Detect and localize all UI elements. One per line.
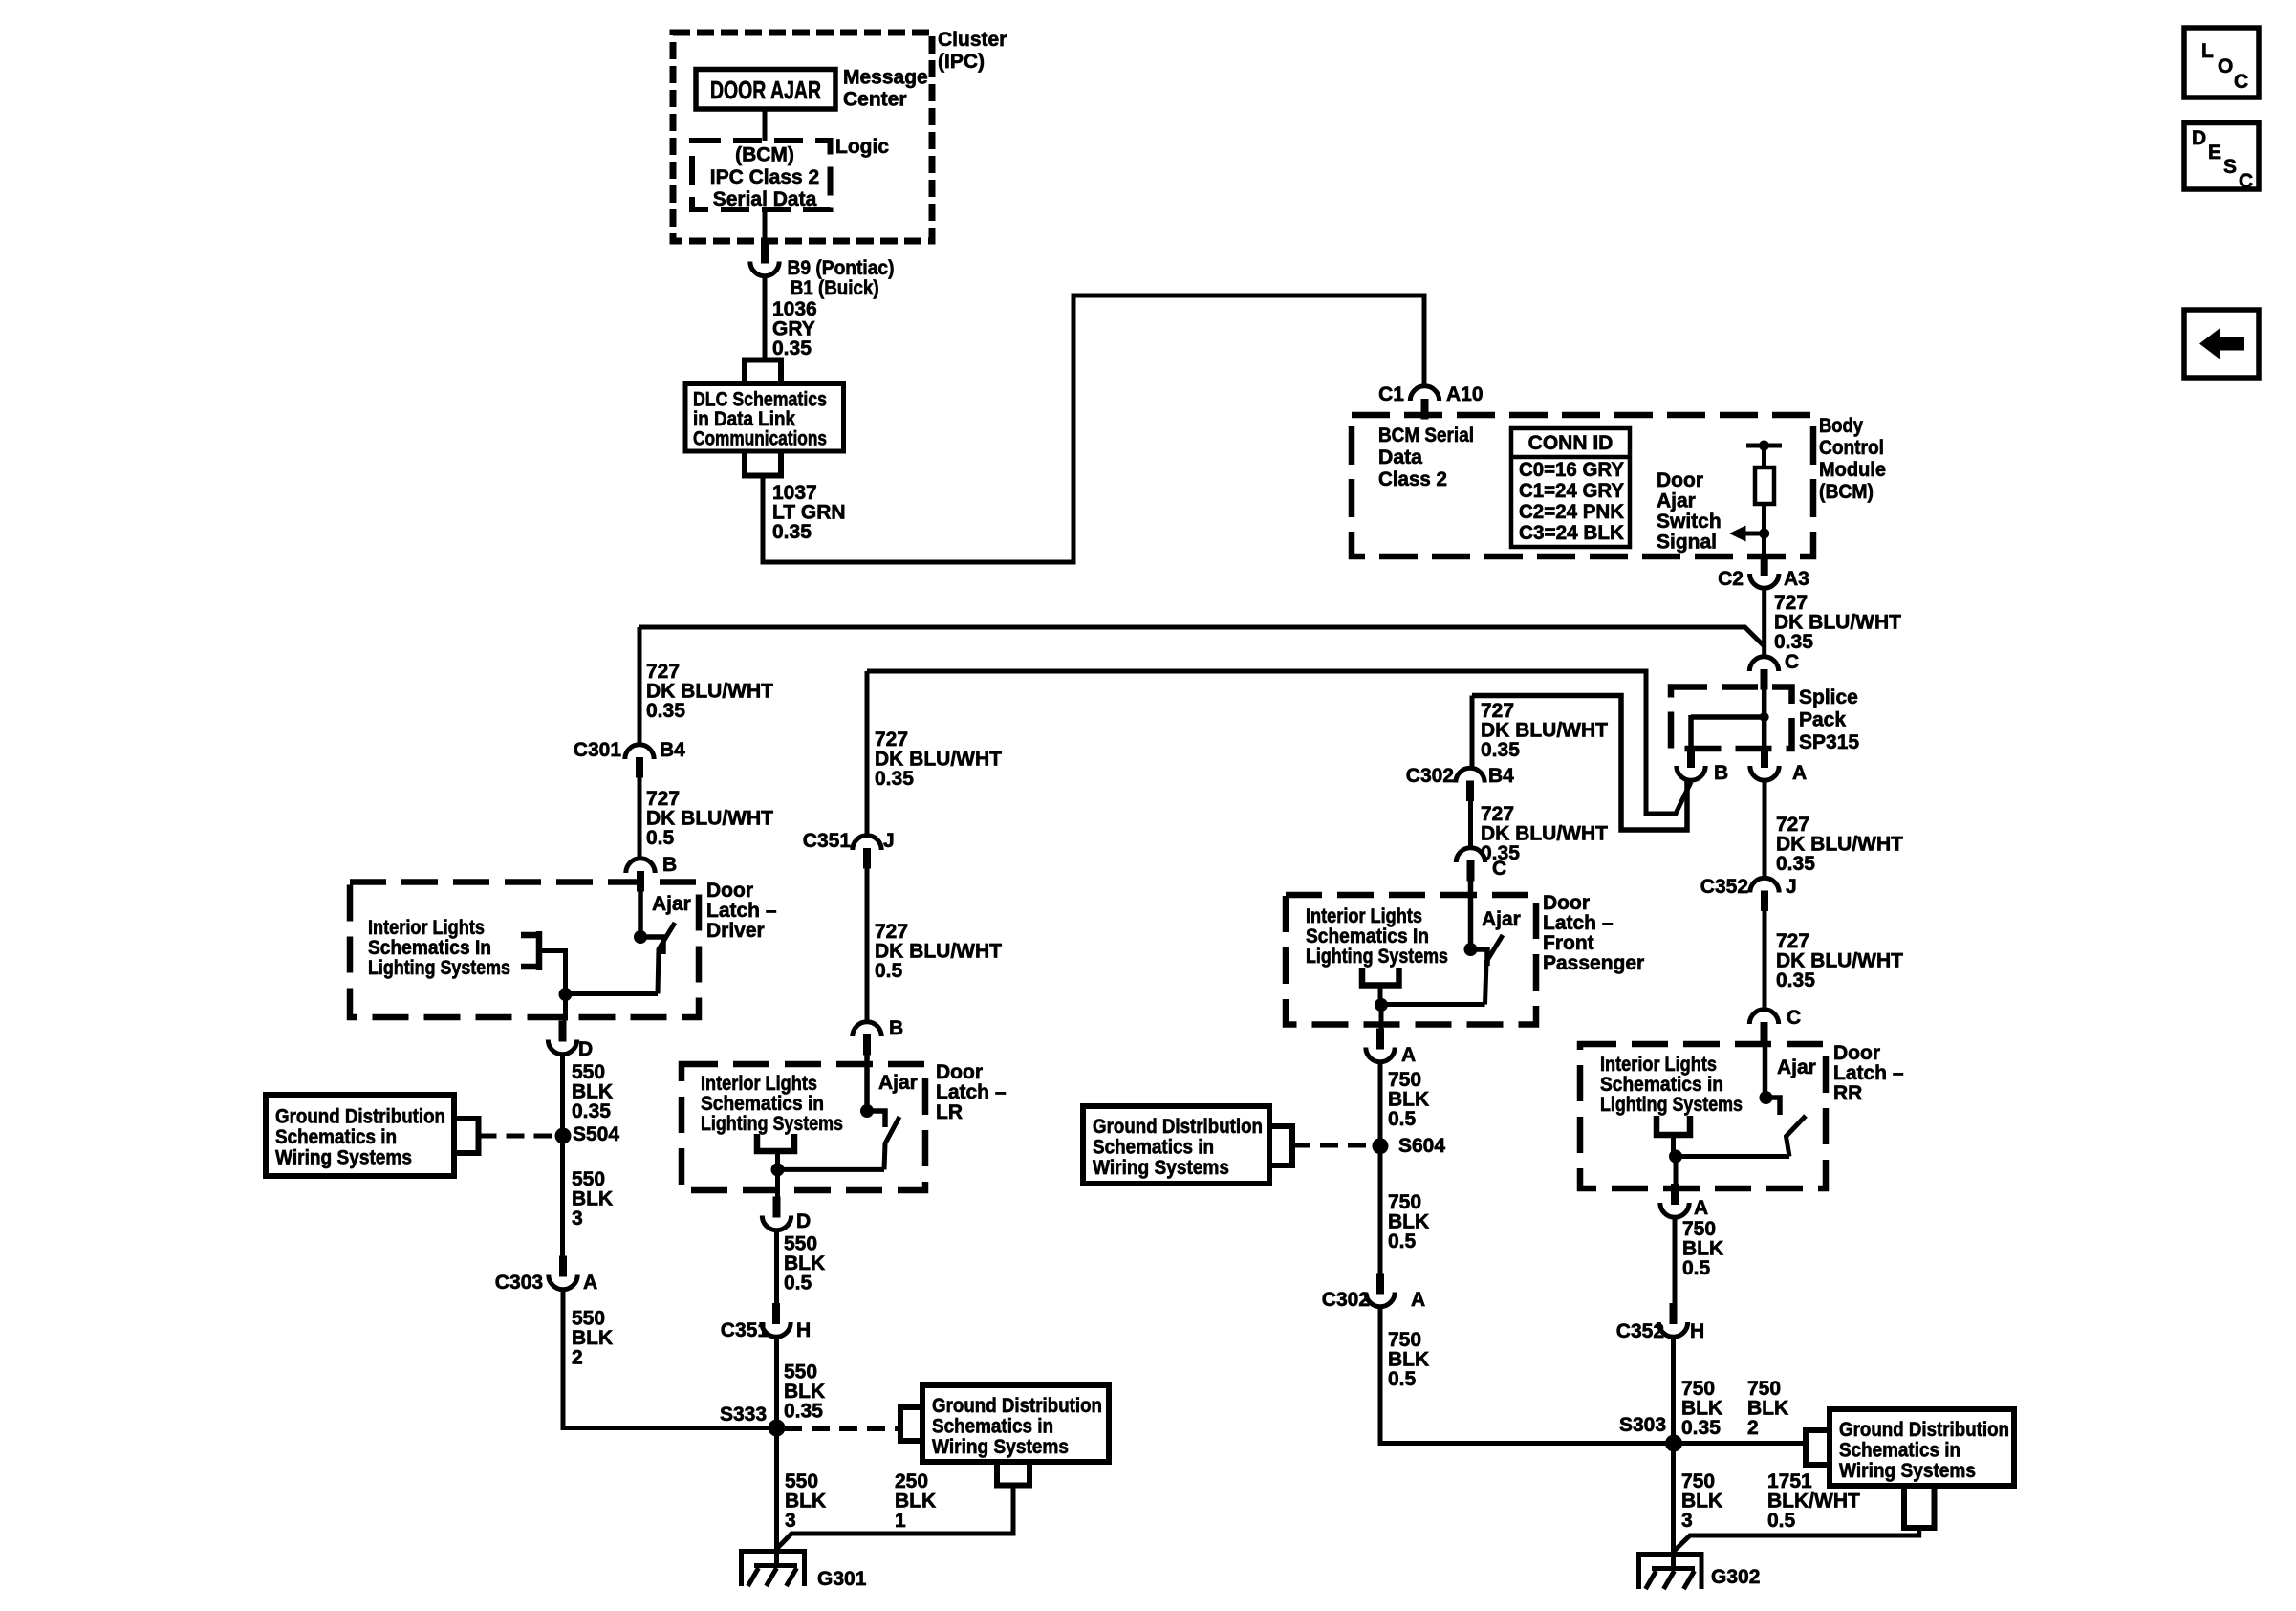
svg-text:IPC Class 2: IPC Class 2 bbox=[710, 166, 819, 188]
node ajar contact dot (FP) bbox=[1464, 943, 1478, 956]
svg-text:C302: C302 bbox=[1322, 1289, 1370, 1311]
connector C302/A bbox=[1366, 1274, 1395, 1307]
svg-text:Ajar: Ajar bbox=[1777, 1056, 1816, 1078]
node common junction dot (LR) bbox=[771, 1163, 785, 1176]
svg-text:0.35: 0.35 bbox=[772, 337, 812, 359]
svg-text:Wiring Systems: Wiring Systems bbox=[1839, 1460, 1976, 1482]
node junction dot on bus bbox=[1759, 441, 1769, 451]
svg-text:Ajar: Ajar bbox=[1482, 908, 1521, 930]
svg-text:Interior Lights: Interior Lights bbox=[701, 1073, 817, 1095]
wire LR branch to splice terminal B bbox=[867, 671, 1691, 814]
wire switch common (driver) bbox=[566, 991, 659, 996]
svg-text:Schematics in: Schematics in bbox=[932, 1416, 1053, 1438]
DLC Schematics box bbox=[685, 384, 844, 452]
svg-text:Schematics in: Schematics in bbox=[701, 1093, 824, 1115]
switch blade (FP) bbox=[1485, 935, 1504, 1005]
svg-text:Door: Door bbox=[1833, 1042, 1880, 1064]
svg-text:0.35: 0.35 bbox=[1681, 1417, 1721, 1439]
svg-text:B: B bbox=[1714, 762, 1728, 784]
wire A to C352 H bbox=[1673, 1218, 1678, 1303]
svg-text:C301: C301 bbox=[574, 739, 622, 761]
svg-text:Ajar: Ajar bbox=[1657, 490, 1696, 512]
svg-text:Ground Distribution: Ground Distribution bbox=[932, 1395, 1102, 1417]
wire fixed contact hook (RR) bbox=[1766, 1098, 1781, 1115]
wire chain3 vertical to C302 B4 bbox=[1470, 696, 1475, 769]
wire splice internal vertical bbox=[1762, 688, 1767, 749]
svg-text:3: 3 bbox=[785, 1510, 796, 1532]
LOC nav box bbox=[2184, 28, 2259, 98]
wire splice internal horizontal bbox=[1691, 714, 1765, 720]
wire fixed contact hook (driver) bbox=[640, 937, 663, 954]
svg-text:Wiring Systems: Wiring Systems bbox=[1093, 1157, 1229, 1179]
bracket ground ref S303 bbox=[1806, 1430, 1830, 1465]
svg-text:Door: Door bbox=[1543, 892, 1590, 914]
switch blade (LR) bbox=[884, 1117, 899, 1169]
svg-text:C0=16 GRY: C0=16 GRY bbox=[1519, 459, 1624, 481]
DESC nav box bbox=[2184, 123, 2259, 190]
wire driver exit to D bbox=[563, 994, 568, 1021]
connector C into splice pack bbox=[1749, 657, 1778, 690]
svg-text:C303: C303 bbox=[495, 1272, 543, 1294]
svg-text:Interior Lights: Interior Lights bbox=[368, 917, 485, 939]
svg-text:Class 2: Class 2 bbox=[1378, 468, 1447, 490]
wire S303 right to ground ref (750 BLK 2) bbox=[1674, 1441, 1806, 1446]
svg-text:0.35: 0.35 bbox=[1774, 631, 1813, 653]
ground distribution box middle bbox=[922, 1385, 1109, 1462]
connector B splice output bbox=[1677, 747, 1705, 780]
svg-text:0.35: 0.35 bbox=[572, 1100, 611, 1122]
svg-text:A: A bbox=[583, 1272, 597, 1294]
svg-text:L: L bbox=[2201, 40, 2214, 62]
svg-text:C2: C2 bbox=[1718, 568, 1744, 590]
wire D to C351 H bbox=[774, 1230, 779, 1303]
svg-text:B4: B4 bbox=[1488, 765, 1514, 787]
svg-text:A: A bbox=[1401, 1044, 1416, 1066]
svg-text:Schematics in: Schematics in bbox=[1839, 1440, 1960, 1462]
connector D below driver box bbox=[548, 1021, 576, 1055]
wire chain2 vertical to C351 J bbox=[865, 671, 870, 836]
svg-text:C: C bbox=[1787, 1007, 1801, 1029]
svg-text:0.35: 0.35 bbox=[1481, 739, 1520, 761]
svg-text:H: H bbox=[796, 1319, 811, 1341]
wire C351H to S333 to G301 bbox=[774, 1338, 779, 1566]
svg-text:A: A bbox=[1792, 762, 1807, 784]
wire C352H to S303 to G302 bbox=[1671, 1338, 1676, 1569]
svg-text:0.35: 0.35 bbox=[1776, 853, 1815, 875]
svg-text:B: B bbox=[889, 1017, 903, 1039]
connector C302/B4 bbox=[1456, 768, 1484, 801]
svg-text:Lighting Systems: Lighting Systems bbox=[1600, 1094, 1743, 1116]
svg-text:S: S bbox=[2223, 156, 2237, 178]
wire ajar switch feed (RR) bbox=[1763, 1042, 1768, 1098]
svg-text:Logic: Logic bbox=[835, 136, 889, 158]
svg-text:0.5: 0.5 bbox=[875, 960, 903, 982]
bracket ground ref S504 bbox=[454, 1119, 479, 1153]
svg-text:0.5: 0.5 bbox=[1767, 1510, 1796, 1532]
svg-text:D: D bbox=[796, 1210, 811, 1232]
svg-text:H: H bbox=[1690, 1320, 1704, 1342]
wire A to S604 to C302A bbox=[1378, 1062, 1383, 1274]
bracket interior lights ref (driver) bbox=[521, 931, 539, 970]
switch blade (RR) bbox=[1787, 1116, 1807, 1157]
svg-text:Interior Lights: Interior Lights bbox=[1306, 905, 1422, 927]
svg-text:O: O bbox=[2218, 55, 2233, 77]
svg-text:Body: Body bbox=[1819, 415, 1863, 437]
connector D below LR box bbox=[762, 1197, 791, 1230]
door latch driver dashed box bbox=[350, 882, 699, 1018]
wire driver branch horizontal to splice C bbox=[639, 627, 1765, 646]
node ajar contact dot (LR) bbox=[860, 1104, 874, 1118]
wire switch common (FP) bbox=[1381, 1002, 1485, 1007]
svg-text:Module: Module bbox=[1819, 459, 1886, 481]
svg-text:Door: Door bbox=[706, 880, 753, 902]
ground distribution box left bbox=[266, 1095, 454, 1176]
ground distribution box right bbox=[1830, 1409, 2014, 1486]
wire FP exit to A bbox=[1379, 1005, 1384, 1029]
svg-text:Wiring Systems: Wiring Systems bbox=[275, 1147, 412, 1169]
svg-text:B9 (Pontiac): B9 (Pontiac) bbox=[788, 257, 895, 279]
node splice S303 bbox=[1665, 1435, 1682, 1452]
wire C301 to B driver bbox=[638, 777, 642, 859]
svg-text:C352: C352 bbox=[1616, 1320, 1664, 1342]
BCM internal bus wire bbox=[1746, 444, 1782, 448]
wire bracket to common (RR) bbox=[1671, 1135, 1676, 1157]
svg-text:0.5: 0.5 bbox=[646, 827, 675, 849]
svg-text:Ajar: Ajar bbox=[878, 1072, 918, 1094]
svg-text:Control: Control bbox=[1819, 437, 1884, 459]
back arrow nav box bbox=[2184, 310, 2259, 378]
splice pack SP315 dashed box bbox=[1671, 687, 1792, 750]
svg-text:Ajar: Ajar bbox=[652, 893, 691, 915]
svg-text:3: 3 bbox=[1681, 1510, 1693, 1532]
wire C302A down and right to S303 bbox=[1380, 1307, 1674, 1444]
connector C2/A3 BCM output bbox=[1750, 555, 1779, 588]
connector B into door latch LR bbox=[853, 1022, 881, 1056]
connector B into door latch driver bbox=[626, 859, 655, 892]
svg-text:D: D bbox=[578, 1038, 593, 1060]
svg-text:C: C bbox=[1785, 651, 1799, 673]
wire C2 down to splice C bbox=[1762, 589, 1766, 657]
svg-text:Latch –: Latch – bbox=[1543, 912, 1614, 934]
wire dashed to S504 bbox=[479, 1134, 556, 1139]
node junction dot at arrow bbox=[1759, 529, 1769, 539]
wire bracket to common (FP) bbox=[1378, 986, 1383, 1006]
svg-text:0.35: 0.35 bbox=[772, 521, 812, 543]
switch blade (driver) bbox=[658, 923, 675, 994]
svg-text:Lighting Systems: Lighting Systems bbox=[368, 957, 510, 979]
connector C303/A bbox=[549, 1256, 577, 1290]
svg-text:C: C bbox=[1492, 858, 1506, 880]
svg-text:Interior Lights: Interior Lights bbox=[1600, 1054, 1717, 1076]
svg-text:D: D bbox=[2192, 127, 2206, 149]
node common junction dot (RR) bbox=[1669, 1150, 1682, 1164]
svg-text:0.5: 0.5 bbox=[1388, 1108, 1417, 1130]
wire B9 to DLC connector bbox=[763, 276, 768, 360]
wire C351J to B LR bbox=[865, 868, 870, 1022]
svg-text:0.5: 0.5 bbox=[1388, 1368, 1417, 1390]
wire ajar switch feed (driver) bbox=[638, 891, 643, 937]
svg-text:B1 (Buick): B1 (Buick) bbox=[791, 277, 879, 299]
node ajar contact dot (driver) bbox=[634, 930, 647, 944]
ground G302 bbox=[1638, 1552, 1703, 1589]
svg-text:Door: Door bbox=[1657, 469, 1703, 491]
wire FP branch to splice terminal B bbox=[1472, 696, 1687, 831]
svg-text:A10: A10 bbox=[1446, 383, 1484, 405]
CONN ID table bbox=[1511, 428, 1630, 547]
svg-text:BCM Serial: BCM Serial bbox=[1378, 425, 1474, 446]
svg-text:0.5: 0.5 bbox=[1388, 1230, 1417, 1252]
svg-text:C: C bbox=[2234, 71, 2248, 93]
wire switch common (RR) bbox=[1676, 1154, 1789, 1159]
svg-text:Center: Center bbox=[843, 89, 907, 111]
wire ajar switch feed (LR) bbox=[864, 1055, 870, 1111]
connector A below RR box bbox=[1660, 1184, 1689, 1217]
door latch front passenger dashed box bbox=[1286, 895, 1536, 1025]
svg-text:Wiring Systems: Wiring Systems bbox=[932, 1436, 1069, 1458]
svg-text:C2=24 PNK: C2=24 PNK bbox=[1519, 501, 1624, 523]
connector C1/A10 into BCM bbox=[1410, 386, 1439, 420]
svg-text:LR: LR bbox=[936, 1101, 963, 1123]
door latch LR dashed box bbox=[682, 1064, 925, 1190]
cluster IPC dashed box bbox=[673, 33, 932, 241]
svg-text:Latch –: Latch – bbox=[706, 900, 777, 922]
node splice S333 bbox=[769, 1420, 786, 1437]
wire bracket to common (driver) bbox=[539, 951, 566, 995]
wire LR exit to D bbox=[775, 1169, 780, 1196]
svg-text:G301: G301 bbox=[817, 1568, 867, 1590]
svg-text:Latch –: Latch – bbox=[936, 1081, 1007, 1103]
bracket interior lights ref (FP) bbox=[1362, 968, 1399, 986]
wire logic box to B9 connector bbox=[763, 209, 768, 243]
svg-text:3: 3 bbox=[572, 1208, 583, 1230]
arrow door ajar switch signal bbox=[1745, 532, 1765, 536]
logic dashed box bbox=[692, 141, 831, 209]
svg-text:0.5: 0.5 bbox=[1682, 1257, 1711, 1279]
svg-text:RR: RR bbox=[1833, 1082, 1862, 1104]
svg-text:2: 2 bbox=[1747, 1417, 1759, 1439]
wire splice B leg bbox=[1688, 715, 1694, 748]
connector C351/J bbox=[853, 836, 881, 869]
wire C352J to C RR bbox=[1763, 911, 1767, 1009]
svg-text:Door: Door bbox=[936, 1061, 983, 1083]
svg-text:E: E bbox=[2208, 142, 2221, 163]
svg-text:S604: S604 bbox=[1398, 1135, 1445, 1157]
svg-text:S303: S303 bbox=[1619, 1414, 1666, 1436]
svg-text:SP315: SP315 bbox=[1799, 731, 1859, 753]
wire fixed contact hook (LR) bbox=[867, 1111, 885, 1127]
svg-text:Driver: Driver bbox=[706, 920, 765, 942]
svg-text:0.35: 0.35 bbox=[784, 1401, 823, 1423]
svg-text:Serial Data: Serial Data bbox=[713, 188, 817, 210]
wire dashed to S604 bbox=[1292, 1143, 1373, 1148]
node common junction dot (FP) bbox=[1375, 998, 1388, 1012]
svg-text:Lighting Systems: Lighting Systems bbox=[701, 1113, 843, 1135]
node ajar contact dot (RR) bbox=[1760, 1091, 1773, 1104]
svg-text:DOOR AJAR: DOOR AJAR bbox=[710, 76, 821, 104]
svg-text:0.35: 0.35 bbox=[646, 700, 685, 722]
svg-text:A: A bbox=[1694, 1197, 1708, 1219]
wire C303 down and right to S333 bbox=[563, 1290, 777, 1428]
svg-text:G302: G302 bbox=[1711, 1566, 1760, 1588]
svg-text:Signal: Signal bbox=[1657, 532, 1717, 554]
wire 1037 route to C1 bbox=[763, 295, 1424, 562]
svg-text:Pack: Pack bbox=[1799, 709, 1846, 731]
icon left arrow bbox=[2199, 329, 2244, 359]
connector B9/B1 cluster output bbox=[750, 243, 779, 276]
svg-text:Schematics in: Schematics in bbox=[1600, 1074, 1723, 1096]
svg-text:S333: S333 bbox=[720, 1404, 767, 1426]
svg-text:B4: B4 bbox=[660, 739, 685, 761]
door latch RR dashed box bbox=[1580, 1044, 1826, 1188]
svg-text:(BCM): (BCM) bbox=[735, 144, 794, 166]
svg-text:A3: A3 bbox=[1784, 568, 1809, 590]
BCM Serial Data dashed box bbox=[1352, 415, 1813, 556]
connector staple into DLC box bbox=[745, 360, 781, 384]
svg-text:C1: C1 bbox=[1378, 383, 1404, 405]
svg-text:0.35: 0.35 bbox=[1776, 969, 1815, 991]
wire DOOR AJAR to logic box bbox=[763, 109, 768, 141]
svg-text:Latch –: Latch – bbox=[1833, 1062, 1904, 1084]
svg-text:C302: C302 bbox=[1406, 765, 1454, 787]
svg-text:Ground Distribution: Ground Distribution bbox=[275, 1106, 445, 1128]
bracket ground ref S604 bbox=[1269, 1126, 1292, 1165]
wire 1751 BLK/WHT 0.5 to G302 bbox=[1675, 1528, 1919, 1551]
svg-text:0.5: 0.5 bbox=[784, 1273, 812, 1295]
connector C301/B4 bbox=[625, 745, 654, 778]
connector A below FP box bbox=[1366, 1029, 1395, 1062]
svg-text:Switch: Switch bbox=[1657, 511, 1722, 533]
wire C302B4 to C FP bbox=[1468, 801, 1473, 848]
connector C into door latch RR bbox=[1749, 1010, 1778, 1043]
svg-text:0.35: 0.35 bbox=[875, 768, 914, 790]
svg-text:Communications: Communications bbox=[693, 428, 827, 450]
connector C352/H bbox=[1658, 1303, 1687, 1337]
svg-text:(BCM): (BCM) bbox=[1819, 481, 1874, 503]
wire switch common (LR) bbox=[778, 1167, 885, 1172]
svg-text:Cluster: Cluster bbox=[938, 29, 1007, 51]
connector C into door latch FP bbox=[1456, 848, 1484, 882]
svg-text:Schematics in: Schematics in bbox=[275, 1126, 397, 1148]
svg-text:Schematics in: Schematics in bbox=[1093, 1137, 1214, 1159]
connector C351/H bbox=[762, 1303, 791, 1337]
svg-text:A: A bbox=[1411, 1289, 1425, 1311]
svg-text:C3=24 BLK: C3=24 BLK bbox=[1519, 522, 1624, 544]
svg-text:B: B bbox=[662, 854, 677, 876]
wire dashed S333 to ground ref bbox=[784, 1426, 900, 1431]
connector staple below DLC box bbox=[745, 451, 781, 476]
resistor door ajar pull-up bbox=[1762, 446, 1766, 468]
svg-text:2: 2 bbox=[572, 1347, 583, 1369]
bracket below ground box (1751 BLK/WHT feed) bbox=[1904, 1486, 1935, 1528]
wire 250 BLK 1 to G301 bbox=[777, 1486, 1014, 1550]
svg-text:Splice: Splice bbox=[1799, 686, 1858, 708]
bracket ground ref S333 bbox=[900, 1407, 922, 1441]
svg-text:S504: S504 bbox=[573, 1123, 619, 1145]
svg-text:C1=24 GRY: C1=24 GRY bbox=[1519, 480, 1624, 502]
bracket below ground box (250 BLK feed) bbox=[997, 1462, 1029, 1486]
wire fixed contact hook (FP) bbox=[1471, 949, 1488, 966]
svg-text:C: C bbox=[2239, 170, 2253, 192]
svg-text:Ground Distribution: Ground Distribution bbox=[1839, 1419, 2009, 1441]
svg-text:J: J bbox=[883, 830, 895, 852]
svg-text:(IPC): (IPC) bbox=[938, 51, 985, 73]
bracket interior lights ref (LR) bbox=[757, 1134, 794, 1151]
connector A splice output bbox=[1750, 747, 1779, 780]
svg-text:Front: Front bbox=[1543, 932, 1594, 954]
node splice S504 bbox=[555, 1128, 572, 1144]
DOOR AJAR message box bbox=[696, 70, 835, 110]
svg-text:C351: C351 bbox=[803, 830, 852, 852]
svg-text:Passenger: Passenger bbox=[1543, 952, 1644, 974]
bracket interior lights ref (RR) bbox=[1657, 1116, 1690, 1135]
svg-text:Ground Distribution: Ground Distribution bbox=[1093, 1116, 1263, 1138]
svg-text:Lighting Systems: Lighting Systems bbox=[1306, 946, 1448, 968]
wire D to S504 to C303 bbox=[560, 1055, 565, 1256]
svg-text:C352: C352 bbox=[1700, 876, 1748, 898]
node splice junction bbox=[1760, 712, 1769, 722]
wire bracket to common (LR) bbox=[775, 1151, 780, 1169]
wire A down to C352 J bbox=[1763, 781, 1767, 878]
connector C352/J bbox=[1750, 878, 1779, 911]
svg-text:1: 1 bbox=[895, 1510, 906, 1532]
svg-text:C351: C351 bbox=[721, 1319, 769, 1341]
wire ajar switch feed (FP) bbox=[1468, 881, 1474, 949]
node splice S604 bbox=[1373, 1138, 1389, 1154]
ground distribution box S604 bbox=[1083, 1106, 1269, 1184]
svg-text:Message: Message bbox=[843, 67, 928, 89]
svg-text:J: J bbox=[1786, 876, 1797, 898]
ground G301 bbox=[741, 1549, 806, 1586]
svg-text:CONN ID: CONN ID bbox=[1528, 432, 1614, 454]
svg-text:Schematics In: Schematics In bbox=[1306, 925, 1429, 947]
wire RR exit to A bbox=[1674, 1157, 1679, 1185]
node common junction dot (driver) bbox=[559, 988, 573, 1001]
svg-text:Schematics In: Schematics In bbox=[368, 937, 491, 959]
svg-text:Data: Data bbox=[1378, 446, 1422, 468]
wire chain1 vertical to C301 bbox=[638, 627, 642, 745]
